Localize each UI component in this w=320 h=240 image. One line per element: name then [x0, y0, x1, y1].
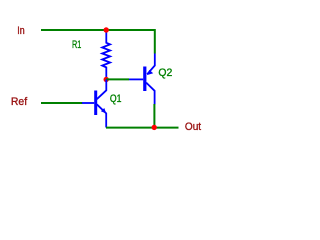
svg-text:Out: Out — [185, 121, 202, 133]
resistor R1 — [102, 30, 110, 80]
node: output junction — [152, 125, 157, 130]
transistor Q1 (NPN) — [82, 80, 106, 128]
transistor Q2 (PNP) — [129, 54, 155, 105]
svg-text:Q2: Q2 — [158, 67, 172, 79]
svg-text:In: In — [17, 25, 24, 37]
svg-text:Ref: Ref — [11, 96, 28, 108]
wire: Ref input wire — [41, 102, 83, 104]
svg-text:Q1: Q1 — [110, 93, 122, 105]
wire: Q2 collector to output rail — [153, 104, 155, 128]
node: junction of R1, Q1 collector and Q2 base — [104, 77, 109, 82]
wire: node to Q2 base — [106, 78, 129, 80]
node: junction of In wire and R1 — [104, 27, 109, 32]
wire: In input wire and top rail to Q2 emitter — [41, 30, 155, 54]
svg-text:R1: R1 — [72, 39, 81, 51]
wire: bottom output wire — [106, 127, 179, 129]
